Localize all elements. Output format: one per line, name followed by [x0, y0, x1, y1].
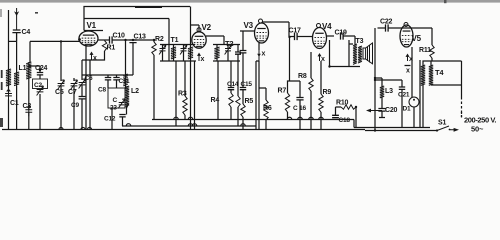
wire R11 line [431, 28, 433, 61]
svg-text:50~: 50~ [471, 125, 484, 134]
svg-text:R10: R10 [336, 100, 349, 107]
wire T1 left drop [175, 61, 177, 126]
node V4 top cap [317, 24, 321, 28]
wire C5 to earth [60, 86, 62, 130]
capacitor C24 [37, 73, 43, 75]
capacitor T1 trimmer b [180, 45, 187, 55]
wire earth bus [2, 130, 437, 131]
tube V1 [79, 31, 98, 46]
svg-text:x: x [201, 56, 205, 63]
lamp D1 [409, 97, 419, 107]
wire V5 cathode arrow [406, 54, 410, 62]
svg-text:R9: R9 [323, 89, 332, 96]
wire R9 line [320, 61, 322, 130]
label R5 [245, 98, 254, 105]
label V2 [202, 23, 212, 32]
label L1 [19, 65, 27, 72]
capacitor C2 trimmer box [33, 79, 48, 89]
svg-text:C20: C20 [385, 107, 398, 114]
label C16 [293, 105, 307, 112]
node V3 top cap [259, 19, 263, 23]
label V2 cathode x [201, 56, 205, 63]
capacitor C2 trimmer [37, 86, 44, 96]
wire L2 down [123, 104, 129, 126]
coil osc primary [123, 74, 127, 86]
wire mid bus2 [122, 124, 256, 126]
svg-text:T2: T2 [225, 39, 233, 48]
svg-text:T1: T1 [171, 37, 179, 44]
coil T1 primary [171, 47, 176, 59]
label 200-250 V [464, 116, 496, 125]
wire V3 anode top [263, 22, 290, 37]
wire C10 to C13 [112, 39, 154, 41]
label T1 [171, 37, 179, 44]
label 50 cycles [471, 125, 484, 134]
label C9 [71, 102, 79, 109]
label V4 cathode x [321, 56, 325, 63]
capacitor C5 trimmer [58, 80, 65, 90]
wire T2 pri stubs [216, 45, 218, 62]
wire S1 mains dash [461, 112, 463, 118]
node V5 top cap [404, 23, 408, 27]
svg-text:C21: C21 [398, 92, 410, 99]
wire V3 grid [240, 31, 255, 50]
label C21 [398, 92, 410, 99]
coil T1 secondary [188, 47, 193, 59]
capacitor C3 (gang, variable) [25, 106, 32, 117]
wire C16 line [290, 81, 301, 97]
capacitor C14 [228, 88, 234, 90]
wire R3 line [184, 61, 186, 120]
capacitor C1 (gang, variable) [5, 89, 12, 100]
wire V5 x2 [405, 47, 413, 75]
wire V3 cathode [258, 43, 260, 50]
wire R7 line [288, 81, 290, 120]
svg-text:C8: C8 [98, 87, 106, 94]
wire L3 to C20 [381, 98, 383, 108]
resistor R6 [264, 100, 268, 120]
wire T1 bottom bar [160, 60, 196, 62]
svg-text:R4: R4 [211, 97, 220, 104]
svg-text:R8: R8 [298, 73, 307, 80]
label C17 [289, 28, 302, 35]
coil T2 primary [214, 47, 219, 59]
label C22 [380, 19, 393, 26]
wire C5 branch [60, 41, 62, 81]
capacitor C12 [119, 115, 125, 117]
svg-text:R1: R1 [107, 45, 116, 52]
wire R6 line [259, 88, 266, 130]
wire R4b line [237, 61, 239, 126]
wire C16 to earth [299, 100, 301, 130]
wire L3 top [375, 78, 382, 86]
capacitor C7 trimmer [71, 80, 78, 90]
tube V3 [255, 23, 269, 43]
coil aerial secondary [14, 72, 19, 86]
coil T4 secondary [429, 65, 433, 85]
wire V4 cathode arrow [318, 53, 322, 61]
wire C24 line [30, 66, 40, 130]
capacitor C23 trimmer [118, 99, 125, 109]
resistor R3 [183, 96, 187, 115]
svg-text:R2: R2 [155, 36, 164, 43]
svg-text:C22: C22 [380, 19, 393, 26]
label V3 [244, 21, 254, 30]
label C4 [22, 29, 31, 36]
wire C7 branch [73, 78, 75, 130]
wire V5 line down [411, 73, 413, 98]
coil aerial coupling winding [6, 69, 11, 86]
antenna aerial [14, 8, 19, 30]
wire tuning branch [29, 41, 31, 62]
wire T2 top bar [213, 44, 240, 46]
wire C23 to earth [111, 108, 113, 130]
label C18 [339, 117, 351, 124]
svg-text:C6: C6 [85, 75, 93, 82]
svg-text:C1: C1 [10, 100, 19, 107]
wire V3 cathode to earth [258, 61, 260, 130]
label C13 [134, 34, 147, 41]
label C12 [104, 116, 116, 123]
label T4 [435, 68, 444, 77]
label C15 [241, 81, 253, 88]
svg-text:L1: L1 [19, 65, 27, 72]
svg-text:C7: C7 [68, 89, 77, 96]
svg-text:x: x [262, 51, 266, 58]
label R8 [298, 73, 307, 80]
label C11 [119, 78, 131, 85]
svg-text:D1: D1 [403, 106, 411, 113]
resistor R4b [236, 96, 240, 107]
label C20 [385, 107, 398, 114]
label V4 [322, 22, 332, 31]
svg-text:23: 23 [110, 105, 117, 112]
svg-text:V4: V4 [322, 22, 332, 31]
wire C15 to R5 [242, 90, 244, 104]
svg-text:x: x [93, 55, 97, 62]
capacitor C18 [332, 115, 339, 117]
label T2 [225, 39, 233, 48]
resistor R4 [229, 93, 233, 107]
wire C17 left [289, 36, 295, 38]
svg-text:V1: V1 [87, 21, 97, 30]
label R3 [178, 91, 187, 98]
label C7 [68, 89, 77, 96]
svg-text:L3: L3 [385, 88, 393, 95]
label V5 cathode x [409, 56, 413, 63]
resistor R9 [319, 94, 323, 112]
wire C19 right [343, 36, 355, 44]
tube V4 [313, 28, 327, 49]
label V5 [412, 34, 422, 43]
wire heater branch a [81, 60, 83, 80]
node earth joins [29, 36, 376, 132]
label R4 [211, 97, 220, 104]
wire R5 to earth [242, 117, 244, 130]
wire T1 trim b stubs [183, 45, 185, 62]
node V1 grid cap [78, 38, 81, 41]
label C24 [35, 65, 48, 72]
resistor R5 [241, 104, 245, 117]
wire V1 cathode down [85, 46, 87, 130]
svg-text:200-250 V.: 200-250 V. [464, 116, 496, 125]
label L2 [131, 88, 139, 95]
wire osc coil join [125, 86, 127, 89]
wire R10 left [336, 107, 342, 115]
wire anode coupling line [84, 18, 169, 20]
capacitor C4 [12, 30, 20, 41]
wire bus1 end drop [354, 120, 356, 128]
wire T1 frame [168, 19, 170, 62]
capacitor C17 [295, 33, 298, 40]
wire C20 end [379, 111, 385, 117]
capacitor C6 trimmer [79, 79, 86, 89]
wire T1 top bar [160, 44, 195, 46]
label R6 [263, 105, 272, 112]
wire R8 line [310, 52, 312, 130]
svg-text:R5: R5 [245, 98, 254, 105]
wire C14 to R4 [230, 90, 232, 120]
svg-text:C17: C17 [289, 28, 302, 35]
node V2 top cap [197, 28, 201, 32]
capacitor C23 trimmer box [108, 88, 125, 112]
label C10 [113, 33, 126, 40]
svg-text:x: x [406, 68, 410, 75]
wire C13 line [126, 40, 134, 75]
capacitor T2 trimmer a [225, 45, 232, 55]
wire C6 to C9 [81, 85, 83, 96]
wire C3 to earth [28, 112, 30, 129]
coil T3 primary [353, 44, 357, 64]
label C5 [55, 89, 64, 96]
label V3 cathode x [262, 51, 266, 58]
wire det drop [289, 37, 291, 82]
wire C3 label gap [28, 78, 30, 110]
coil T4 primary [421, 65, 425, 85]
wire V4 grid stub [312, 36, 314, 38]
capacitor T2 cap b [235, 52, 241, 54]
svg-text:C10: C10 [113, 33, 126, 40]
capacitor C13 [129, 40, 136, 43]
capacitor C9 [79, 97, 86, 99]
wire C15 line mid [242, 53, 244, 87]
label V1 [87, 21, 97, 30]
resistor R7 [285, 93, 289, 112]
coil L1 [26, 62, 31, 79]
wire V2 cathode arrow [197, 53, 201, 62]
svg-text:T4: T4 [435, 68, 444, 77]
wire V4 anode [327, 35, 335, 37]
wire T4 right link [431, 84, 462, 86]
label C1 [10, 100, 19, 107]
wire T1 trim a stubs [162, 45, 164, 62]
resistor R11 [430, 45, 434, 58]
coil L2 [125, 86, 129, 106]
wire frame to aerial stub [9, 40, 17, 42]
svg-text:C13: C13 [134, 34, 147, 41]
svg-text:C5: C5 [55, 89, 64, 96]
capacitor C10 [110, 36, 113, 43]
wire T1 sec bottom drop [190, 61, 192, 130]
wire T2 bottom bar [213, 60, 240, 62]
wire T4 left down [422, 85, 424, 128]
label R9 [323, 89, 332, 96]
wire C11 line [116, 75, 118, 88]
svg-text:C15: C15 [241, 81, 253, 88]
label T3 [356, 38, 364, 45]
label C6 [85, 75, 93, 82]
wire osc bus [82, 74, 133, 76]
resistor R10 [341, 105, 356, 109]
wire T3 bottom link [330, 40, 361, 67]
wire V1 label box [84, 19, 103, 31]
label V1 cathode x [93, 55, 97, 62]
svg-text:C4: C4 [22, 29, 31, 36]
svg-text:V2: V2 [202, 23, 212, 32]
wire V2 cathode down [194, 61, 196, 130]
svg-text:C: C [113, 97, 118, 104]
svg-text:L2: L2 [131, 88, 139, 95]
label C14 [227, 81, 239, 88]
capacitor C16 [296, 98, 303, 100]
wire C17 right [297, 36, 312, 38]
wire aerial line down [16, 41, 18, 72]
svg-text:R11: R11 [419, 47, 431, 54]
resistor R2 [152, 42, 156, 55]
tube V2 [192, 32, 206, 48]
wire C21 line [375, 80, 402, 128]
svg-text:C2: C2 [34, 82, 42, 89]
transformer T3 speaker [363, 43, 373, 64]
label C8 [98, 87, 106, 94]
svg-text:V3: V3 [244, 21, 254, 30]
label R7 [278, 88, 287, 95]
resistor R1 [102, 41, 106, 52]
wire HT line right [374, 28, 376, 131]
wire C22 to R11 [388, 27, 432, 29]
label D1 [403, 106, 411, 113]
wire V1 cathode arrow [90, 52, 94, 61]
wire grid line [30, 40, 80, 42]
capacitor C15 [240, 88, 246, 90]
svg-text:C12: C12 [104, 116, 116, 123]
svg-text:C9: C9 [71, 102, 79, 109]
coil T3 secondary [358, 46, 362, 63]
svg-text:C18: C18 [339, 117, 351, 124]
label C3 [23, 103, 32, 110]
wire HT top rail [84, 7, 190, 19]
capacitor C11 [113, 78, 119, 80]
svg-text:V5: V5 [412, 34, 422, 43]
wire heater branch b [89, 60, 91, 130]
wire C22 rail [378, 27, 386, 29]
wire output top link [423, 61, 462, 65]
wire T2 drop a [217, 61, 219, 120]
capacitor C20 [378, 109, 385, 112]
wire T2 cap b stubs [237, 45, 239, 62]
capacitor C21 [399, 87, 405, 89]
label R10 [336, 100, 349, 107]
svg-text:S1: S1 [438, 120, 446, 127]
label R2 [155, 36, 164, 43]
wire R10 right [356, 107, 430, 128]
label R11 [419, 47, 431, 54]
wire mains right line [461, 61, 463, 117]
wire R4 line [230, 61, 232, 87]
wire R1 bottom [82, 51, 105, 60]
wire left frame vertical [8, 10, 10, 130]
capacitor C22 [386, 24, 389, 31]
wire pickup lead [366, 109, 382, 113]
capacitor C15 upper [240, 51, 247, 53]
wire V2 top cap lead [191, 25, 200, 32]
wire R2 to HT bus [153, 40, 155, 120]
wire T2 trim stubs [227, 45, 229, 62]
tube V5 [400, 25, 413, 47]
node grid junction [60, 40, 62, 42]
svg-text:R6: R6 [263, 105, 272, 112]
label C19 [335, 30, 348, 37]
wire T1 pri stubs [173, 45, 175, 62]
label L3 [385, 88, 393, 95]
wire V4 screen drop [329, 40, 331, 67]
wire HT bus1 [152, 117, 354, 119]
coil L3 [380, 86, 384, 98]
wire C8 line [107, 75, 109, 88]
wire D1 leads [414, 60, 420, 128]
svg-text:C14: C14 [227, 81, 239, 88]
wire V1 anode [98, 39, 109, 41]
capacitor T1 trimmer a [159, 45, 166, 55]
label S1 [438, 120, 446, 127]
wire heater line [256, 61, 259, 130]
wire aerial secondary to earth [16, 86, 18, 130]
svg-text:R7: R7 [278, 88, 287, 95]
capacitor C8 [105, 78, 111, 80]
label R1 [107, 45, 116, 52]
switch S1 [436, 126, 459, 132]
capacitor C19 [341, 32, 344, 39]
wire C9 to earth [81, 99, 83, 130]
resistor R8 [309, 78, 313, 91]
wire V3 cathode arrow down [257, 50, 261, 61]
wire V2 anode stub [206, 36, 224, 45]
wire T1 sec stubs [190, 7, 192, 62]
